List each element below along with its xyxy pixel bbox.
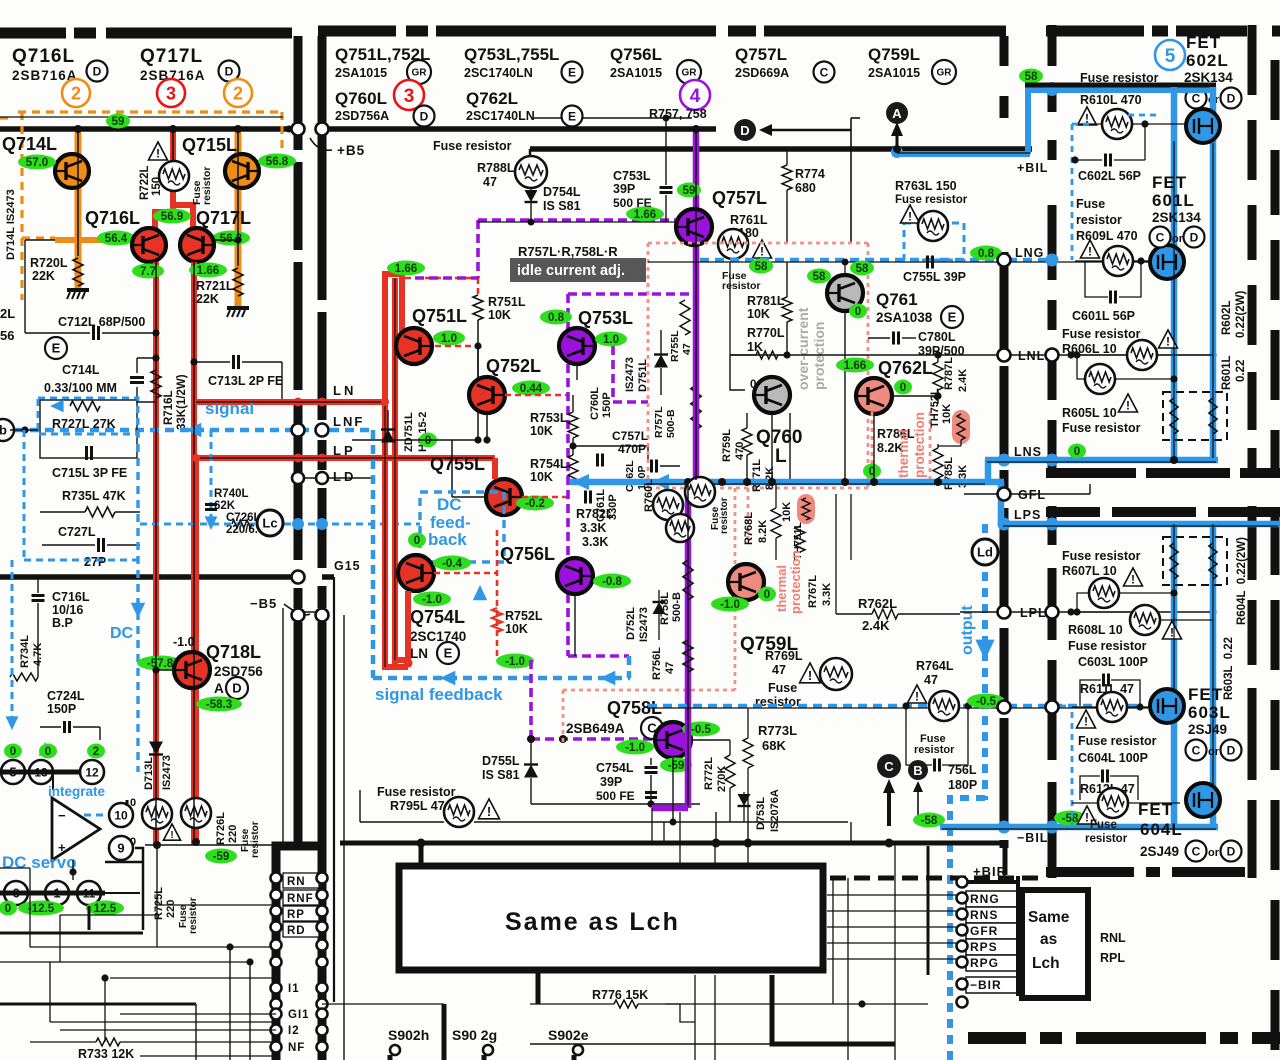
wire R608L xyxy=(1071,611,1130,613)
resistor R733 xyxy=(96,1038,120,1046)
sheet right edge dashed border xyxy=(1271,60,1280,120)
svg-text:RPG: RPG xyxy=(970,956,999,970)
resistor R602L xyxy=(1209,398,1217,434)
svg-text:R607L 10: R607L 10 xyxy=(1062,564,1117,578)
svg-text:-12.5: -12.5 xyxy=(28,903,55,915)
blue top feed row xyxy=(897,151,1030,157)
svg-text:R768L: R768L xyxy=(743,512,755,545)
dashed box R603 R604 xyxy=(1163,537,1227,585)
green pill 0 gray xyxy=(849,304,867,319)
svg-text:2SC1740: 2SC1740 xyxy=(410,629,466,644)
thick verticals bottom xyxy=(442,1004,447,1060)
bottom left of same box stub xyxy=(536,970,541,1004)
blue dashed vert left xyxy=(23,430,26,560)
svg-text:10/16: 10/16 xyxy=(52,603,83,617)
resistor R757L purple xyxy=(691,385,701,430)
warning R607L xyxy=(1124,568,1143,587)
svg-text:L: L xyxy=(775,446,787,467)
resistor R601L xyxy=(1170,398,1178,434)
svg-text:GI1: GI1 xyxy=(288,1009,310,1021)
fuse R760L a xyxy=(653,490,683,520)
orange circled 2 xyxy=(62,79,90,107)
svg-text:resistor: resistor xyxy=(914,744,955,756)
blue LNS to y482 link xyxy=(985,460,992,482)
svg-text:2SA1015: 2SA1015 xyxy=(335,66,387,80)
svg-text:R769L: R769L xyxy=(765,649,803,663)
svg-text:D752L: D752L xyxy=(625,607,637,640)
svg-text:47: 47 xyxy=(483,175,497,189)
right panel left border lower xyxy=(1048,506,1057,545)
svg-text:resistor: resistor xyxy=(1076,213,1122,227)
svg-text:0: 0 xyxy=(1074,446,1080,458)
orange dashed stub to Q716 base xyxy=(22,236,55,239)
svg-text:8.2K: 8.2K xyxy=(757,520,769,543)
junction dots on +B5 rail xyxy=(74,125,82,133)
capacitor C727L xyxy=(99,538,104,552)
red junction dot xyxy=(404,659,413,668)
svg-text:LNS: LNS xyxy=(1014,445,1042,459)
label back is above; transistor Q754L xyxy=(398,555,434,591)
left edge orange dash xyxy=(0,116,10,119)
zener ZD751L xyxy=(381,430,395,443)
svg-text:!: ! xyxy=(908,210,912,224)
wire Q756L emitter down xyxy=(574,594,576,656)
upper FET panel bottom border xyxy=(1046,468,1136,478)
white nodes LD xyxy=(292,472,304,484)
circle Ld xyxy=(972,539,998,565)
connector boxes RNG..-BIR xyxy=(966,891,1018,907)
green pill -0.2 xyxy=(516,496,554,511)
left bus thin verticals to bottom xyxy=(333,577,335,1002)
svg-text:150P: 150P xyxy=(601,392,613,418)
capacitor 756L xyxy=(935,759,940,772)
svg-text:220: 220 xyxy=(165,900,177,918)
vertical wires bottom left xyxy=(49,962,51,1022)
svg-text:GFR: GFR xyxy=(970,924,998,938)
green pill 0.8 xyxy=(970,246,1002,261)
svg-text:Q754L: Q754L xyxy=(410,607,465,627)
junction dots bottom left xyxy=(101,974,108,981)
svg-text:protection: protection xyxy=(788,550,803,614)
middle-right vertical dashed rail xyxy=(1000,36,1009,66)
red dashed wire Q751L to R751L xyxy=(435,345,478,348)
red loop inner bottom xyxy=(395,657,408,663)
svg-text:C715L 3P FE: C715L 3P FE xyxy=(52,466,127,480)
pin C or D 603 xyxy=(1186,740,1207,761)
node C big xyxy=(877,754,901,778)
node b left edge xyxy=(0,419,14,441)
svg-text:57.0: 57.0 xyxy=(26,157,48,169)
svg-text:LNG: LNG xyxy=(1015,246,1044,260)
svg-text:R608L 10: R608L 10 xyxy=(1068,623,1123,637)
svg-text:E: E xyxy=(568,109,576,123)
capacitor C762L xyxy=(652,460,657,473)
svg-text:R757, 758: R757, 758 xyxy=(649,107,707,121)
svg-text:!: ! xyxy=(915,690,919,704)
svg-text:A: A xyxy=(214,681,224,696)
green pill 57.0 xyxy=(18,155,56,170)
resistor R762L h xyxy=(872,609,898,619)
svg-text:LN: LN xyxy=(410,646,428,661)
svg-text:7.7: 7.7 xyxy=(140,266,156,278)
svg-text:10K: 10K xyxy=(747,307,770,321)
svg-text:2SK134: 2SK134 xyxy=(1152,210,1201,225)
svg-text:R763L 150: R763L 150 xyxy=(895,179,957,193)
svg-text:C: C xyxy=(1192,844,1201,858)
warning R608L xyxy=(1163,621,1182,640)
svg-text:E: E xyxy=(568,65,576,79)
svg-text:Fuse: Fuse xyxy=(768,681,797,695)
green pill -58 bil xyxy=(1054,811,1086,826)
fuse R605L xyxy=(1085,364,1115,394)
svg-text:3.3K: 3.3K xyxy=(821,583,833,606)
more bottom-left wires xyxy=(120,1013,276,1015)
bus corner down right xyxy=(1003,843,1008,875)
svg-text:LNF: LNF xyxy=(333,414,364,429)
long verticals bottom center xyxy=(714,843,716,864)
blue dashed C726 branch xyxy=(210,430,213,520)
red dots on rails y458 xyxy=(294,454,303,463)
transistor Q714L xyxy=(55,154,89,188)
wire R788 stub xyxy=(529,149,532,157)
svg-text:500-B: 500-B xyxy=(671,592,683,622)
svg-text:58: 58 xyxy=(755,261,768,273)
svg-text:resistor: resistor xyxy=(719,497,730,534)
svg-text:10K: 10K xyxy=(505,622,528,636)
svg-text:D: D xyxy=(1227,743,1236,757)
resistor R755L xyxy=(680,300,690,335)
resistor R771L xyxy=(742,428,752,455)
sheet bottom dashed border xyxy=(968,1032,1026,1044)
resistor R770L h xyxy=(756,351,778,359)
wire Q717 base to orange right xyxy=(214,239,238,241)
svg-text:C604L 100P: C604L 100P xyxy=(1078,751,1148,765)
G15 corner vertical xyxy=(322,574,334,580)
fuse R608L xyxy=(1130,605,1160,635)
svg-text:59: 59 xyxy=(112,116,125,128)
svg-text:2SC1740LN: 2SC1740LN xyxy=(464,66,533,80)
svg-text:D: D xyxy=(1227,844,1236,858)
wire 157 to connector xyxy=(157,904,276,906)
svg-text:thermal: thermal xyxy=(774,565,789,612)
svg-text:Q716L: Q716L xyxy=(12,46,75,67)
fuse R763L xyxy=(918,211,948,241)
svg-text:5: 5 xyxy=(1165,46,1176,67)
svg-text:S902h: S902h xyxy=(388,1027,429,1043)
svg-text:Q753L: Q753L xyxy=(578,308,633,328)
svg-text:Q757L: Q757L xyxy=(712,188,767,208)
svg-text:0: 0 xyxy=(5,903,11,915)
svg-text:10K: 10K xyxy=(530,424,553,438)
orange dashed bias box top xyxy=(18,110,283,113)
wire Q758L emitter down xyxy=(672,758,674,822)
blue dashed box R763L xyxy=(904,223,964,260)
svg-text:−BIL: −BIL xyxy=(1017,831,1048,845)
svg-text:C780L: C780L xyxy=(918,330,956,344)
red dashed wire Q752L right xyxy=(505,394,568,397)
svg-text:D753L: D753L xyxy=(755,797,767,830)
red trace Q754 emitter xyxy=(405,591,411,667)
white node G15 xyxy=(292,571,305,584)
svg-text:0.8: 0.8 xyxy=(978,248,995,260)
fuse R612L xyxy=(1098,788,1128,818)
signal blue dashed row y430 xyxy=(0,428,373,433)
op-amp pin 1 xyxy=(45,881,69,905)
svg-text:R788L: R788L xyxy=(477,161,515,175)
LPL row right part xyxy=(960,611,1213,613)
svg-text:-1.0: -1.0 xyxy=(625,742,645,754)
svg-text:56.8: 56.8 xyxy=(266,156,289,168)
svg-text:D: D xyxy=(1227,91,1236,105)
svg-text:Q717L: Q717L xyxy=(196,208,251,228)
svg-text:C754L: C754L xyxy=(596,761,634,775)
svg-text:C: C xyxy=(1156,230,1165,244)
svg-text:!: ! xyxy=(808,668,812,683)
node A black xyxy=(886,102,908,124)
wire x851 vert2 xyxy=(850,494,852,560)
blue dash vert ops xyxy=(11,560,14,722)
green pill 1.66 left xyxy=(189,263,227,278)
transistor Q718L xyxy=(174,652,210,688)
stub to Same as Lch box xyxy=(419,843,424,866)
red trace vert Q718 area xyxy=(193,458,199,845)
svg-text:-0.5: -0.5 xyxy=(976,696,996,708)
Same as Lch box xyxy=(399,866,823,970)
green pill 1.66 q762 xyxy=(836,358,874,373)
resistor R604L xyxy=(1209,543,1217,579)
bottom-left connector rail xyxy=(272,852,281,1060)
svg-text:R716L: R716L xyxy=(163,390,175,425)
svg-text:150P: 150P xyxy=(47,702,76,716)
op-amp wires xyxy=(105,892,140,894)
svg-text:or: or xyxy=(1208,746,1220,758)
svg-text:RPL: RPL xyxy=(1100,951,1125,965)
svg-text:R604L 0.22(2W): R604L 0.22(2W) xyxy=(1236,537,1248,625)
black centerline purple xyxy=(695,131,697,480)
resistor R716L on red xyxy=(151,370,161,398)
svg-text:Q717L: Q717L xyxy=(140,46,203,67)
svg-text:2SJ49: 2SJ49 xyxy=(1140,844,1179,859)
svg-text:58: 58 xyxy=(813,271,826,283)
resistor R773L xyxy=(743,738,753,768)
svg-text:2: 2 xyxy=(93,746,99,758)
purple box main rect xyxy=(568,292,695,296)
svg-text:RNS: RNS xyxy=(970,908,998,922)
white node +B5 rail2 xyxy=(316,123,329,136)
wire R609L row xyxy=(1075,260,1102,262)
svg-text:!: ! xyxy=(1126,399,1130,413)
svg-text:R757L·R,758L·R: R757L·R,758L·R xyxy=(518,244,618,259)
svg-text:C726L: C726L xyxy=(226,512,261,524)
purple small fuse xyxy=(666,514,694,542)
wire x836 vert xyxy=(835,494,837,614)
svg-text:3.3K: 3.3K xyxy=(582,535,608,549)
LPL nodes xyxy=(998,606,1011,619)
svg-text:−BIR: −BIR xyxy=(970,978,1002,992)
diode D755L xyxy=(524,765,538,778)
thick wire pin11 down xyxy=(88,906,91,930)
pink dashed inner q759 xyxy=(747,488,750,540)
svg-text:LPS: LPS xyxy=(1014,508,1041,522)
svg-text:Same as Lch: Same as Lch xyxy=(505,908,680,936)
pin C or D 601 xyxy=(1150,227,1171,248)
ground for Q714L xyxy=(67,290,89,299)
blue dashed DC vertical xyxy=(136,430,139,772)
svg-text:1.0: 1.0 xyxy=(603,334,619,346)
main +B5 horizontal rail y129 xyxy=(0,126,293,132)
svg-text:C762L: C762L xyxy=(624,460,636,492)
svg-text:-1.0: -1.0 xyxy=(173,635,195,649)
right edge thick vert xyxy=(1016,876,1020,996)
R727L box xyxy=(40,400,137,458)
blue nodes LNS xyxy=(998,454,1010,466)
blue arrows y482 xyxy=(572,474,589,490)
black centerline blue rows xyxy=(987,461,1216,463)
thin rows from box right xyxy=(827,894,963,896)
purple idle current dashed top xyxy=(478,218,695,222)
svg-text:0.22: 0.22 xyxy=(1235,360,1247,382)
G15 thick row y577 xyxy=(0,574,296,580)
transistor Q753L xyxy=(559,328,595,364)
LPS nodes xyxy=(998,518,1010,530)
green pill -1.0 q759 xyxy=(711,597,749,612)
capacitor C724L xyxy=(65,721,70,733)
green pill 1.66 q757 xyxy=(626,207,664,222)
svg-text:signal feedback: signal feedback xyxy=(375,685,503,704)
svg-text:resistor: resistor xyxy=(1085,833,1128,845)
blue up arrow x480 xyxy=(473,585,487,600)
blue dashed box lower xyxy=(1071,712,1074,830)
wire Q761 collector up xyxy=(844,262,846,275)
svg-text:C602L 56P: C602L 56P xyxy=(1078,169,1141,183)
blue arrow R727L xyxy=(50,400,64,413)
svg-text:3: 3 xyxy=(404,86,415,107)
purple circled 4 xyxy=(680,80,710,110)
green pill 59 xyxy=(106,114,130,129)
resistor R756L xyxy=(683,640,693,672)
wire C603L xyxy=(1080,680,1101,706)
fuse resistor R722L xyxy=(159,161,189,191)
Same as Lch small box xyxy=(1022,890,1088,998)
svg-text:R776 15K: R776 15K xyxy=(592,988,648,1002)
junction dots red rows xyxy=(381,398,389,406)
green pill 0 q762 xyxy=(894,380,912,395)
blue dashed vertical x373 xyxy=(371,430,376,678)
red dashed top link xyxy=(405,277,478,280)
svg-text:1.66: 1.66 xyxy=(197,265,219,277)
wire C601L xyxy=(1085,261,1108,297)
wire x895 LNG down xyxy=(894,149,896,152)
badge GR 3 xyxy=(932,60,956,84)
svg-text:Fuse resistor: Fuse resistor xyxy=(1062,421,1141,435)
pink dashed box overcurrent xyxy=(648,242,868,245)
svg-text:0: 0 xyxy=(130,836,136,848)
purple top junction dot xyxy=(692,125,700,133)
svg-text:as: as xyxy=(1040,931,1057,948)
svg-text:LNL: LNL xyxy=(1018,349,1045,363)
green pill -0.5 q758 xyxy=(682,722,720,737)
svg-text:R609L 470: R609L 470 xyxy=(1076,229,1138,243)
svg-text:idle current adj.: idle current adj. xyxy=(517,263,625,279)
green pill 1.0 b xyxy=(595,332,627,347)
thin verts bottom center xyxy=(847,878,849,1060)
black dashed row y878 xyxy=(830,876,1046,881)
white node +B5 rail1 xyxy=(292,123,305,136)
svg-text:1.66: 1.66 xyxy=(395,263,417,275)
resistor R727L xyxy=(70,401,100,411)
svg-text:!: ! xyxy=(170,830,173,841)
svg-text:GFL: GFL xyxy=(1018,488,1046,502)
green pill -59 b xyxy=(660,758,692,773)
svg-text:D755L: D755L xyxy=(482,754,520,768)
white node signal rail2 xyxy=(316,424,329,437)
arrow node C xyxy=(887,786,891,826)
pin circle E xyxy=(562,62,583,83)
wire Q753L emitter xyxy=(576,364,578,380)
resistor R734L h xyxy=(10,673,38,681)
blue top row right xyxy=(1025,87,1213,93)
svg-text:R754L: R754L xyxy=(530,457,568,471)
rail y118 thin wire xyxy=(534,117,692,119)
green pill 58 gray1 xyxy=(807,269,831,284)
black under top blue xyxy=(1025,83,1216,88)
svg-text:Fuse resistor: Fuse resistor xyxy=(377,785,456,799)
svg-text:R727L 27K: R727L 27K xyxy=(52,417,116,431)
fuse R769L xyxy=(820,658,852,690)
red dashed Q754 to R752L xyxy=(434,572,497,575)
svg-text:1.0: 1.0 xyxy=(441,333,457,345)
diode D751L xyxy=(654,355,668,368)
svg-text:-58: -58 xyxy=(1062,813,1079,825)
svg-text:Fuse resistor: Fuse resistor xyxy=(1068,639,1147,653)
right panel inner right border upper xyxy=(1248,25,1257,95)
wire C713L row xyxy=(194,361,230,363)
orange trace Q714L collector xyxy=(75,129,82,288)
blue FET verticals upper xyxy=(1171,87,1178,460)
transistor Q715L xyxy=(225,154,259,188)
row LD thin xyxy=(296,477,373,479)
lower FET panel top border xyxy=(1046,507,1100,517)
warning R769L xyxy=(800,663,821,683)
thermistor TH751L pink xyxy=(797,494,815,524)
bottom-left connector rail 2 xyxy=(318,870,327,1060)
thick vert x928 xyxy=(927,846,930,975)
blue dashed to purple corner xyxy=(627,656,632,678)
svg-text:D: D xyxy=(232,681,241,696)
svg-text:0: 0 xyxy=(10,746,16,758)
svg-text:IS2473: IS2473 xyxy=(638,607,650,642)
svg-text:-0.8: -0.8 xyxy=(602,576,622,588)
svg-text:C727L: C727L xyxy=(58,525,96,539)
svg-text:ZD751L: ZD751L xyxy=(403,412,415,452)
svg-text:R764L: R764L xyxy=(916,659,954,673)
svg-text:2.4K: 2.4K xyxy=(957,369,969,392)
svg-text:Ld: Ld xyxy=(977,545,993,560)
red row LN y402 xyxy=(194,399,385,405)
capacitor C757L xyxy=(598,454,603,467)
svg-text:FET: FET xyxy=(1152,173,1187,192)
wire b node to box xyxy=(10,429,38,431)
green pill 56.8 xyxy=(258,154,296,169)
R727L blue dashed box xyxy=(38,398,138,434)
svg-text:R771L: R771L xyxy=(751,459,763,492)
blue dashed arrows small xyxy=(6,716,19,730)
red trace Q717L emitter down xyxy=(191,262,197,845)
pin circle E2 xyxy=(562,106,583,127)
op-amp pin 13 xyxy=(29,760,53,784)
svg-text:C: C xyxy=(1192,743,1201,757)
svg-text:+BIL: +BIL xyxy=(1017,161,1048,175)
